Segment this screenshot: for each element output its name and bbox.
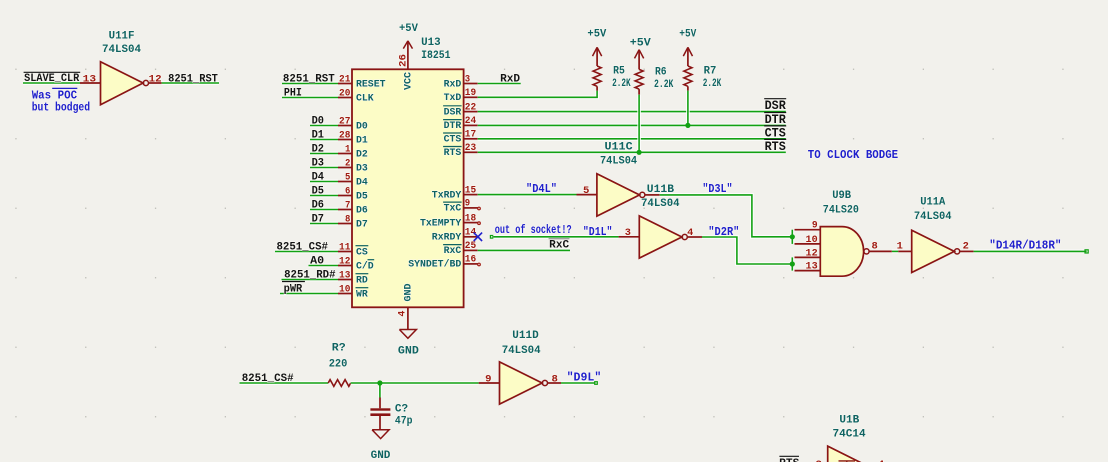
label RxC (overlined)	[549, 239, 570, 252]
label SLAVE_CLR	[24, 72, 81, 85]
svg-text:2.2K: 2.2K	[703, 78, 722, 90]
inverter U11C	[597, 174, 645, 216]
label RTS at U1B (overlined, clipped)	[779, 456, 800, 462]
svg-text:I8251: I8251	[421, 50, 451, 62]
U9B output stub pin 8	[869, 250, 892, 252]
U13 pin 13 RD (left)	[338, 270, 368, 286]
svg-text:8: 8	[345, 214, 350, 225]
R7 value 2.2K	[703, 78, 722, 90]
U13 pin 23 RTS (right)	[443, 143, 478, 159]
U13 pin 18 TxEMPTY (right)	[420, 213, 478, 229]
wire DSR	[478, 110, 786, 114]
ground symbol below C?	[372, 430, 389, 439]
label D4	[312, 172, 325, 184]
+5V text at R7	[679, 29, 696, 41]
svg-text:R7: R7	[704, 65, 717, 77]
label 8251_RD#	[284, 269, 336, 281]
svg-text:DSR: DSR	[444, 107, 462, 118]
wire D7 to U13	[310, 222, 338, 226]
svg-text:74C14: 74C14	[833, 429, 867, 441]
svg-text:74LS04: 74LS04	[600, 155, 637, 167]
svg-text:13: 13	[806, 262, 818, 273]
U13 pin 7 D6 (left)	[338, 200, 368, 216]
svg-text:U13: U13	[421, 37, 441, 49]
label DTR (overlined)	[764, 113, 786, 128]
wire D2 to U13	[310, 152, 338, 156]
svg-text:GND: GND	[398, 345, 419, 357]
label D6	[312, 200, 324, 212]
U13 pin 5 D4 (left)	[338, 172, 368, 188]
wire D9L	[561, 381, 595, 385]
wire 8251_RST to RESET	[282, 82, 338, 86]
svg-text:D0: D0	[312, 116, 324, 128]
svg-text:C/D: C/D	[356, 260, 374, 272]
svg-text:8251_RST: 8251_RST	[283, 74, 335, 86]
svg-text:9: 9	[812, 221, 818, 232]
U11F value 74LS04	[102, 44, 141, 56]
svg-text:U11C: U11C	[605, 142, 634, 154]
svg-text:8251_RST: 8251_RST	[168, 73, 218, 85]
U13 pin 11 CS (left)	[338, 242, 368, 258]
comment Was POC	[32, 88, 78, 102]
svg-text:"D2R": "D2R"	[708, 225, 739, 239]
GND text below U13	[398, 345, 419, 357]
svg-text:GND: GND	[371, 450, 391, 462]
svg-text:2: 2	[963, 241, 969, 252]
svg-text:+5V: +5V	[679, 29, 696, 41]
U13 pin 6 D5 (left)	[338, 186, 368, 202]
capacitor C?	[370, 398, 390, 430]
power +5V symbol at U13 VCC	[403, 41, 412, 69]
IC U13 I8251 body	[352, 69, 464, 307]
label D0	[312, 116, 324, 128]
svg-text:RxC: RxC	[549, 240, 569, 252]
resistor R? horizontal	[328, 380, 351, 387]
wire PHI to CLK	[282, 96, 338, 100]
svg-text:3: 3	[465, 74, 470, 85]
GND text below C?	[371, 450, 391, 462]
label D2	[312, 144, 324, 156]
label D7	[312, 214, 324, 226]
svg-text:D4: D4	[312, 172, 325, 184]
svg-text:TxC: TxC	[444, 204, 462, 215]
U13 pin 28 D1 (left)	[338, 130, 368, 146]
junction at U9B pin 9/10	[790, 234, 795, 239]
svg-text:pWR: pWR	[284, 284, 303, 296]
U13 pin 16 SYNDET/BD (right)	[408, 255, 478, 271]
svg-text:SYNDET/BD: SYNDET/BD	[408, 259, 461, 271]
svg-text:74LS04: 74LS04	[102, 44, 141, 56]
svg-text:R?: R?	[332, 343, 346, 355]
svg-text:GND: GND	[403, 284, 414, 302]
wire joining U9B pins 9-10	[790, 230, 794, 244]
svg-text:74LS04: 74LS04	[502, 345, 541, 357]
svg-text:2.2K: 2.2K	[654, 79, 674, 91]
svg-text:D2: D2	[312, 144, 324, 156]
wire 8251_CS# to R?	[240, 381, 329, 385]
svg-text:CS: CS	[356, 247, 368, 258]
label D3L	[702, 182, 732, 196]
U13 pin 20 CLK (left)	[338, 88, 374, 104]
svg-text:D5: D5	[312, 186, 325, 198]
pin number 2	[963, 241, 969, 252]
resistor R6 with +5V	[635, 50, 644, 95]
R5 reference	[613, 65, 625, 77]
svg-text:CTS: CTS	[444, 135, 462, 146]
grid dots background	[15, 69, 1063, 418]
pin number 5	[583, 186, 589, 197]
R6 value 2.2K	[654, 79, 674, 91]
svg-text:20: 20	[339, 88, 350, 99]
svg-text:RTS: RTS	[765, 140, 787, 154]
svg-text:8251_CS#: 8251_CS#	[242, 373, 294, 385]
svg-text:D7: D7	[312, 214, 324, 226]
svg-text:74LS20: 74LS20	[823, 204, 859, 216]
svg-text:17: 17	[465, 130, 476, 141]
svg-text:12: 12	[339, 256, 350, 267]
svg-text:U9B: U9B	[832, 190, 851, 202]
svg-text:D3: D3	[312, 158, 325, 170]
label D3	[312, 158, 325, 170]
U13 pin 8 D7 (left)	[338, 214, 368, 230]
wire D1 to U13	[310, 138, 338, 142]
svg-text:21: 21	[339, 74, 350, 85]
svg-text:D5: D5	[356, 191, 368, 202]
U9B reference label	[832, 190, 851, 202]
wire D4 to U13	[310, 180, 338, 184]
U13 pin 1 D2 (left)	[338, 144, 368, 160]
+5V text at U13	[399, 23, 418, 35]
wire 8251_CS# to CS	[275, 250, 338, 254]
U11D value 74LS04	[502, 345, 541, 357]
U13 pin 24 DTR (right)	[443, 116, 478, 132]
wire D1L to U11B	[493, 235, 618, 239]
U11A output stub pin 2	[960, 250, 974, 252]
open wire end square	[1085, 250, 1088, 253]
svg-text:RxD: RxD	[500, 73, 520, 85]
wire D3 to U13	[310, 166, 338, 170]
svg-text:15: 15	[465, 185, 476, 196]
wire DTR	[478, 124, 786, 128]
comment out of socket!?	[495, 223, 572, 237]
+5V text at R5	[587, 29, 606, 41]
svg-text:6: 6	[345, 186, 350, 197]
svg-text:DTR: DTR	[444, 121, 462, 132]
svg-text:A0: A0	[310, 256, 324, 268]
U11F reference label	[109, 30, 135, 42]
svg-text:8251_RD#: 8251_RD#	[284, 269, 336, 281]
svg-text:1: 1	[345, 144, 350, 155]
svg-text:+5V: +5V	[587, 29, 606, 41]
R6 reference	[655, 66, 667, 78]
svg-text:RxD: RxD	[444, 79, 462, 90]
label D5	[312, 186, 325, 198]
wire TxD to R5	[478, 91, 597, 98]
svg-text:"D9L": "D9L"	[567, 371, 602, 385]
svg-text:D4: D4	[356, 177, 368, 188]
label A0	[310, 256, 324, 268]
wire joining U9B pins 12-13	[790, 257, 794, 270]
svg-text:2.2K: 2.2K	[612, 78, 631, 90]
svg-text:8251_CS#: 8251_CS#	[277, 242, 329, 254]
svg-text:8: 8	[552, 374, 558, 385]
svg-text:U11D: U11D	[512, 330, 539, 342]
label CTS (overlined)	[764, 126, 786, 140]
U11D pin 9 stub	[479, 382, 500, 384]
svg-text:CLK: CLK	[356, 93, 374, 104]
ground symbol at U13 GND pin 4	[399, 307, 416, 338]
junction R7/DTR	[685, 123, 690, 128]
pin number 12	[149, 74, 162, 85]
svg-text:TxEMPTY: TxEMPTY	[420, 218, 461, 229]
svg-text:11: 11	[339, 242, 350, 253]
svg-text:D6: D6	[356, 205, 368, 216]
wire D5 to U13	[310, 194, 338, 198]
pin number 8	[872, 241, 878, 252]
U11B reference label	[647, 184, 675, 196]
svg-text:1: 1	[897, 241, 903, 252]
svg-text:74LS04: 74LS04	[641, 198, 680, 210]
pin name GND (U13)	[403, 284, 414, 302]
svg-text:27: 27	[339, 116, 350, 127]
U11D output stub pin 8	[548, 382, 562, 384]
svg-text:DTR: DTR	[765, 113, 787, 127]
svg-text:5: 5	[345, 172, 350, 183]
U11C value 74LS04	[600, 155, 637, 167]
U13 pin 21 RESET (left)	[338, 74, 386, 90]
wire U9B to U11A	[892, 249, 898, 253]
pin name VCC	[403, 72, 414, 90]
R? value 220	[329, 359, 348, 371]
resistor R7 with +5V	[683, 47, 692, 90]
svg-text:2: 2	[345, 158, 350, 169]
svg-text:24: 24	[465, 116, 476, 127]
U1B reference label	[839, 414, 859, 426]
label pWR (overlined)	[282, 282, 305, 296]
wire RxC stub out	[478, 248, 570, 252]
U9B pin 9 stub	[795, 221, 821, 232]
U13 pin 3 RxD (right)	[444, 74, 478, 90]
pin number 26 (VCC)	[398, 54, 409, 67]
inverter U11D	[500, 362, 548, 404]
svg-text:12: 12	[806, 248, 818, 259]
wire RxD	[478, 82, 521, 86]
open pin end circle	[478, 207, 481, 210]
U11C reference label	[605, 142, 634, 154]
open wire end square at D9L	[595, 382, 598, 385]
svg-text:U1B: U1B	[839, 414, 859, 426]
svg-text:13: 13	[339, 270, 350, 281]
R7 reference	[704, 65, 717, 77]
label 8251_RST	[168, 73, 218, 85]
U13 value I8251	[421, 50, 451, 62]
label PHI	[284, 88, 302, 100]
comment TO CLOCK BODGE	[808, 148, 898, 162]
svg-text:RxC: RxC	[444, 246, 462, 257]
U13 pin 25 RxC (right)	[443, 241, 478, 257]
svg-text:7: 7	[345, 200, 350, 211]
svg-text:TxRDY: TxRDY	[432, 190, 462, 201]
wire R6 to RTS	[637, 95, 641, 153]
inverter U11B	[639, 216, 687, 258]
svg-text:+5V: +5V	[399, 23, 418, 35]
svg-text:74LS04: 74LS04	[914, 211, 952, 223]
svg-text:RTS: RTS	[779, 458, 800, 462]
svg-text:25: 25	[465, 241, 476, 252]
pin number 9 (U11D)	[485, 374, 491, 385]
label D9L	[567, 371, 602, 385]
svg-text:10: 10	[806, 235, 818, 246]
svg-text:R5: R5	[613, 65, 625, 77]
svg-text:9: 9	[485, 374, 491, 385]
U11A value 74LS04	[914, 211, 952, 223]
wire SLAVE_CLR to U11F pin 13	[23, 81, 80, 85]
R? reference	[332, 343, 346, 355]
label D14R/D18R	[989, 238, 1061, 252]
label RTS (overlined)	[764, 139, 786, 154]
svg-text:SLAVE_CLR: SLAVE_CLR	[24, 73, 80, 85]
junction R6/RTS	[637, 150, 642, 155]
pin number 1	[897, 241, 903, 252]
U11C output stub pin 6	[645, 194, 660, 196]
svg-text:12: 12	[149, 74, 162, 85]
wire D0 to U13	[310, 124, 338, 128]
svg-text:47p: 47p	[395, 415, 413, 427]
pin number 4 (U1B, clipped)	[878, 460, 884, 462]
svg-text:TO CLOCK BODGE: TO CLOCK BODGE	[808, 148, 898, 162]
U11C pin 5 stub	[577, 194, 597, 196]
svg-text:9: 9	[465, 199, 470, 210]
label 8251_CS#	[277, 242, 329, 254]
svg-text:10: 10	[339, 284, 350, 295]
svg-text:RD: RD	[356, 275, 368, 286]
svg-text:"D3L": "D3L"	[702, 182, 732, 196]
pin number 8 (U11D)	[552, 374, 558, 385]
C? reference	[395, 404, 408, 416]
wire CTS	[478, 137, 786, 141]
svg-text:R6: R6	[655, 66, 667, 78]
svg-text:13: 13	[83, 74, 97, 85]
label 8251_CS# (bottom)	[242, 373, 294, 385]
U9B pin 13 stub	[795, 262, 821, 273]
wire D14R/D18R	[974, 249, 1087, 253]
U11B output stub pin 4	[687, 236, 702, 238]
label D1	[312, 130, 325, 142]
svg-text:D6: D6	[312, 200, 324, 212]
no-connect X on pin 14 RxRDY	[474, 233, 482, 241]
svg-text:WR: WR	[356, 289, 368, 300]
wire D3L to U9B	[660, 195, 793, 237]
pin number 3 (U1B, clipped)	[816, 460, 822, 462]
svg-text:RxRDY: RxRDY	[432, 233, 462, 244]
inverter U1B (clipped at bottom)	[828, 446, 871, 462]
svg-text:CTS: CTS	[765, 126, 787, 140]
svg-text:RTS: RTS	[444, 148, 462, 159]
comment but bodged	[32, 101, 90, 115]
U11D reference label	[512, 330, 539, 342]
svg-text:U11A: U11A	[920, 197, 945, 209]
U13 pin 19 TxD (right)	[444, 88, 478, 104]
junction at C?	[377, 380, 382, 385]
C? value 47p	[395, 415, 413, 427]
svg-text:28: 28	[339, 130, 350, 141]
wire RTS	[478, 150, 786, 154]
U11F pin 13 stub	[80, 82, 101, 84]
svg-text:"D14R/D18R": "D14R/D18R"	[989, 238, 1061, 252]
svg-text:26: 26	[398, 54, 409, 67]
svg-text:D3: D3	[356, 163, 368, 174]
svg-text:19: 19	[465, 88, 476, 99]
wire R7 to DTR	[686, 91, 690, 126]
pin number 4 (GND)	[397, 311, 408, 317]
svg-text:"D1L": "D1L"	[583, 225, 613, 239]
svg-text:18: 18	[465, 213, 476, 224]
U9B pin 12 stub	[795, 248, 821, 259]
svg-text:220: 220	[329, 359, 348, 371]
U13 pin 9 TxC (right)	[443, 199, 478, 215]
wire D6 to U13	[310, 208, 338, 212]
svg-text:U11F: U11F	[109, 30, 135, 42]
svg-text:22: 22	[465, 102, 476, 113]
wire junction down to C?	[378, 383, 382, 398]
U11F output stub pin 12	[149, 82, 162, 84]
U11A pin 1 stub	[898, 250, 911, 252]
U11B value 74LS04	[641, 198, 680, 210]
label D2R	[708, 225, 739, 239]
junction at U9B pin 12/13	[790, 261, 795, 266]
svg-text:4: 4	[687, 228, 693, 239]
U11B pin 3 stub	[619, 236, 640, 238]
U13 pin 2 D3 (left)	[338, 158, 368, 174]
svg-text:TxD: TxD	[444, 93, 462, 104]
svg-text:D1: D1	[356, 135, 368, 146]
svg-text:4: 4	[397, 311, 408, 317]
wire R? to U11D	[351, 381, 479, 385]
R5 value 2.2K	[612, 78, 631, 90]
svg-text:U11B: U11B	[647, 184, 675, 196]
open pin end circle	[478, 263, 481, 266]
NAND gate U9B	[820, 227, 869, 277]
+5V text at R6	[630, 38, 651, 50]
U13 pin 14 RxRDY (right)	[432, 228, 478, 244]
svg-text:PHI: PHI	[284, 88, 302, 100]
U13 pin 27 D0 (left)	[338, 116, 368, 132]
svg-text:3: 3	[625, 228, 631, 239]
svg-text:out of socket!?: out of socket!?	[495, 223, 572, 237]
svg-text:D0: D0	[356, 121, 368, 132]
svg-text:+5V: +5V	[630, 38, 651, 50]
wire D2R to U9B	[702, 237, 792, 264]
U11A reference label	[920, 197, 945, 209]
label DSR (overlined)	[764, 99, 786, 114]
svg-text:C?: C?	[395, 404, 408, 416]
pin number 4	[687, 228, 693, 239]
svg-text:23: 23	[465, 143, 476, 154]
svg-text:D7: D7	[356, 219, 368, 230]
U9B value 74LS20	[823, 204, 859, 216]
svg-text:VCC: VCC	[403, 72, 414, 90]
svg-text:8: 8	[872, 241, 878, 252]
U1B value 74C14	[833, 429, 867, 441]
label D4L	[526, 182, 557, 196]
U13 pin 15 TxRDY (right)	[432, 185, 478, 201]
inverter U11A	[912, 230, 960, 272]
wire TxRDY to U11C	[478, 193, 577, 197]
svg-text:D1: D1	[312, 130, 325, 142]
U13 pin 17 CTS (right)	[443, 130, 478, 146]
no-connect wire start square	[490, 236, 493, 239]
label 8251_RST at RESET	[283, 74, 335, 86]
